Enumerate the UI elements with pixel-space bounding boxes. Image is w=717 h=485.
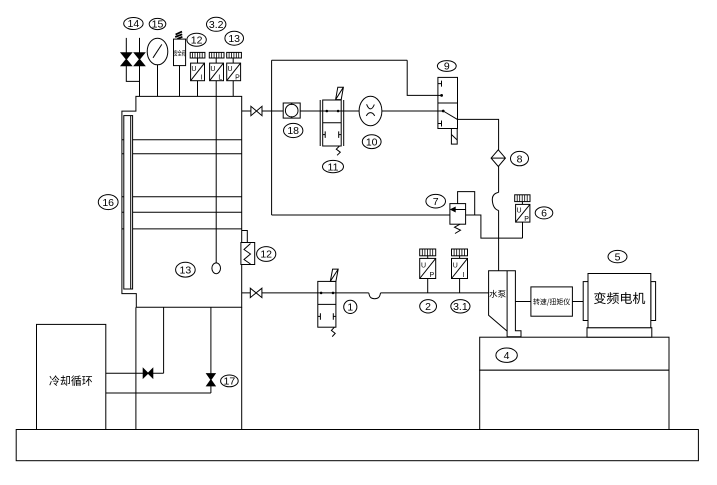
tank 16 outline [122, 96, 242, 307]
transducer 3.1 cap [452, 249, 468, 256]
transducer U/I cap [190, 52, 205, 58]
wire: sensor 6 stem down to junction line [522, 222, 524, 238]
svg-text:P: P [429, 272, 434, 279]
svg-text:7: 7 [433, 196, 439, 208]
svg-text:6: 6 [541, 208, 547, 220]
label 9 [437, 61, 456, 72]
wire: tank left leg [135, 307, 137, 429]
svg-text:9: 9 [444, 61, 450, 73]
svg-text:11: 11 [328, 161, 339, 173]
valve 11 spring [336, 146, 340, 155]
transducer 2 cap [420, 249, 436, 256]
check valve 8 [491, 150, 505, 167]
transducer 6 cap [515, 195, 530, 202]
valve 9 upper blocked port [438, 81, 442, 87]
label 17 [221, 375, 239, 387]
cooling valve A (filled) [143, 369, 153, 378]
valve 14 right body [134, 53, 145, 66]
wire: bypass vertical at x=271.6 from top line down to relief line [271, 60, 273, 215]
label 14 [124, 18, 143, 30]
tank baffle line 1 [122, 139, 242, 141]
torque meter box [531, 287, 573, 316]
transducer U/I stem to tank [197, 81, 199, 97]
label 6 [535, 207, 553, 219]
label 7 [426, 194, 446, 208]
transducer 3.1 box U/I [452, 258, 468, 278]
svg-text:U: U [516, 207, 521, 214]
heater 12 body [241, 243, 255, 265]
svg-text:17: 17 [224, 376, 236, 388]
transducer 2 box U/P [420, 258, 436, 278]
valve 9 body [438, 77, 458, 128]
label 16 [98, 195, 118, 210]
valve 1 blocked ports [318, 313, 336, 320]
wire: cooling line B horizontal [106, 392, 211, 394]
wire: bypass down to valve 9 upper port [407, 60, 438, 95]
flow meter 18 [283, 103, 300, 118]
shutoff valve on suction line (open bowtie) [250, 288, 262, 297]
transducer U/L box [210, 63, 224, 81]
shutoff valve on top line (open bowtie) [251, 106, 262, 115]
ground base plate [16, 430, 698, 461]
svg-text:P: P [524, 216, 529, 223]
svg-text:13: 13 [228, 33, 240, 45]
label 13 (tank probe) [176, 262, 196, 277]
wire: top bypass horizontal y=60.2 [272, 59, 408, 61]
wire: tank right leg [241, 307, 243, 429]
valve 11 side rails [319, 100, 321, 146]
svg-text:I: I [201, 75, 203, 82]
svg-text:3.2: 3.2 [209, 19, 224, 31]
svg-text:15: 15 [152, 19, 164, 31]
temperature probe line inside tank [215, 96, 217, 263]
pump base platform 4 [480, 337, 669, 370]
label 3.1 [451, 300, 470, 313]
LABELS-LAYER [98, 17, 627, 387]
valve 1 body [318, 281, 336, 327]
heater 12 zigzag element [244, 244, 251, 265]
tank baffle line 5 [122, 228, 242, 230]
tank baffle line 2 [122, 153, 242, 155]
valve 9 lower port with flow diagonal [438, 110, 443, 112]
motor right tab [651, 282, 656, 321]
svg-text:U: U [191, 66, 196, 73]
label 5 [608, 250, 627, 262]
COMPONENTS-LAYER [37, 32, 670, 430]
motor 5 body [588, 274, 651, 328]
transducer 6 box U/P [516, 204, 530, 222]
motor left tab [583, 282, 588, 321]
wire: relief valve output to junction line [466, 215, 523, 238]
label 12 (heater) [257, 247, 276, 262]
valve 14 left stem [125, 38, 127, 53]
LINES-LAYER [106, 60, 523, 429]
svg-text:16: 16 [102, 197, 114, 209]
hose: flexible dip on suction line [369, 293, 381, 299]
water pump body [489, 271, 521, 337]
svg-text:12: 12 [260, 249, 272, 261]
tank baffle line 4 [122, 211, 242, 213]
valve 14 left outlet pipe [126, 66, 139, 82]
wire: vertical below hose to pump top [498, 211, 500, 271]
svg-text:U: U [210, 66, 215, 73]
valve 14 right outlet to tank [139, 66, 141, 97]
label 18 [284, 123, 303, 137]
relief valve 7 body [450, 204, 466, 225]
cooling valve 17 (filled, vertical) [207, 374, 216, 386]
svg-text:2: 2 [425, 301, 431, 313]
safety valve breather squiggle [175, 32, 182, 39]
svg-text:1: 1 [347, 302, 353, 314]
label 1 [344, 300, 357, 313]
pressure gauge 15 [147, 38, 168, 65]
heater connection step [242, 231, 248, 243]
svg-text:18: 18 [287, 125, 299, 137]
transducer U/L cap [209, 52, 224, 58]
valve 1 spring [331, 327, 335, 336]
label 10 [362, 135, 381, 149]
wire: sensor 3.1 stem [459, 279, 461, 293]
wire: suction line from tank to pump [242, 292, 369, 294]
safety valve body [174, 39, 186, 66]
valve 11 lever [336, 87, 344, 99]
svg-text:12: 12 [191, 34, 203, 46]
valve 11 body [323, 100, 342, 146]
cooling circulation box [37, 324, 106, 429]
shaft pump to torque meter [515, 301, 531, 303]
pump motor symbol 10 [359, 96, 382, 125]
svg-text:3.1: 3.1 [453, 301, 468, 313]
tank baffle line 3 [122, 196, 242, 198]
wire: cooling line A vertical up to tank bottom [163, 307, 165, 373]
valve 9 pilot tab [451, 129, 457, 145]
valve 1 lever [330, 269, 338, 281]
valve 11 blocked ports [323, 131, 342, 138]
svg-text:U: U [453, 262, 458, 269]
transducer U/I box [191, 63, 205, 81]
svg-text:10: 10 [366, 136, 378, 148]
temperature probe bulb [212, 263, 221, 274]
svg-text:8: 8 [517, 153, 523, 165]
wire: cooling line A horizontal [106, 372, 164, 374]
transducer U/P box [227, 63, 241, 81]
label 8 [511, 151, 529, 165]
label 2 [420, 300, 437, 313]
hose: flexible loop on pump pressure line [492, 192, 498, 210]
gauge 15 stem [157, 65, 159, 97]
motor pedestal [587, 328, 652, 338]
valve 9 upper port [438, 94, 442, 96]
wire: relief line y=215 from bypass vertical to relief valve 7 [272, 214, 450, 216]
valve 14 left body [121, 53, 132, 66]
svg-text:4: 4 [504, 350, 510, 362]
safety valve stem [179, 66, 181, 97]
valve 9 lower blocked port [438, 121, 442, 127]
relief valve 7 spring [455, 224, 461, 233]
svg-text:5: 5 [615, 251, 621, 263]
svg-text:U: U [227, 66, 232, 73]
svg-text:13: 13 [180, 264, 192, 276]
wire: relief valve bypass loop [458, 192, 475, 215]
wire: cooling line B vertical through valve 17 to tank bottom [210, 307, 212, 393]
label 4 [496, 348, 517, 362]
wire: valve 9 output to vertical drop x=498.6 [458, 119, 499, 192]
wire: main top line from tank to valve 9 [242, 110, 438, 112]
label 3.2 [207, 17, 226, 31]
shaft torque meter to motor [572, 301, 583, 303]
svg-text:I: I [463, 272, 465, 279]
level gauge tube on tank left [124, 116, 133, 289]
transducer U/P cap [227, 52, 242, 58]
label 15 [149, 18, 166, 29]
label 11 [323, 160, 344, 172]
svg-text:L: L [218, 75, 222, 82]
label 13 (top transducer) [225, 31, 244, 45]
valve 14 right stem [139, 38, 141, 53]
svg-text:P: P [235, 75, 240, 82]
wire: sensor 2 stem [427, 279, 429, 293]
svg-text:14: 14 [128, 18, 140, 30]
label 12 (top transducer) [187, 33, 206, 46]
svg-text:U: U [421, 262, 426, 269]
